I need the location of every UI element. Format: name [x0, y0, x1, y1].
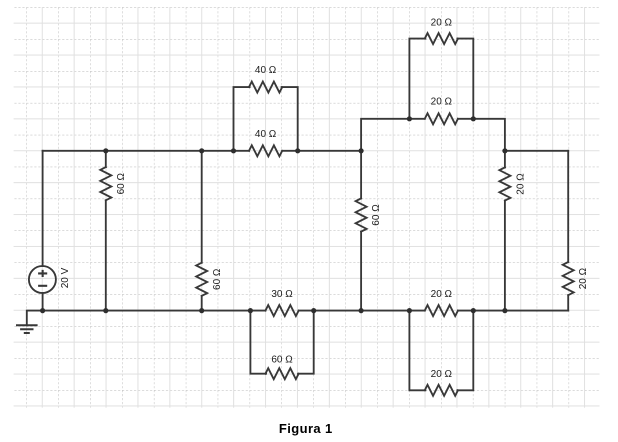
- junction node A / R1 top: [103, 148, 108, 153]
- svg-text:Figura 1: Figura 1: [279, 421, 333, 436]
- wire 20-ohm lower parallel loop (R20d branch): [409, 311, 473, 391]
- svg-text:20 Ω: 20 Ω: [515, 173, 526, 195]
- wire V1 top lead (node A): [42, 151, 44, 266]
- svg-text:40 Ω: 40 Ω: [255, 65, 277, 76]
- V1 minus terminal mark: [38, 285, 47, 287]
- junction node G at V1: [40, 308, 45, 313]
- svg-text:40 Ω: 40 Ω: [255, 129, 277, 140]
- wire 60-ohm lower parallel loop (R60p branch): [250, 311, 313, 374]
- svg-text:20 Ω: 20 Ω: [578, 267, 589, 289]
- svg-text:60 Ω: 60 Ω: [212, 268, 223, 290]
- resistor R60p (60-ohm parallel with R30): [265, 368, 298, 379]
- resistor R20d (20-ohm parallel with R20c): [425, 385, 458, 396]
- resistor R20a (upper of top 20-ohm pair): [425, 33, 458, 44]
- resistor R40b (lower of 40-ohm pair): [234, 145, 298, 156]
- resistor R30 (30-ohm lower branch): [250, 305, 313, 316]
- svg-text:20 Ω: 20 Ω: [431, 289, 453, 300]
- junction R20 bottom pair right node: [471, 308, 476, 313]
- wire 20-ohm top parallel loop (R20a branch): [409, 39, 473, 119]
- wire 40-ohm parallel loop (R40a branch): [234, 87, 298, 151]
- wire node B riser to upper-right net: [361, 119, 409, 151]
- junction R20 top pair right node: [471, 116, 476, 121]
- junction R20 top pair left node: [407, 116, 412, 121]
- junction R1 bottom: [103, 308, 108, 313]
- svg-text:20 Ω: 20 Ω: [431, 369, 453, 380]
- resistor R5 (20-ohm far right): [563, 151, 574, 311]
- svg-text:30 Ω: 30 Ω: [271, 289, 293, 300]
- resistor R40a (upper of 40-ohm pair): [249, 82, 282, 93]
- svg-text:20 V: 20 V: [60, 267, 71, 288]
- wire bottom net: R20c right node to right branch: [473, 310, 568, 312]
- junction R20 bottom pair left node: [407, 308, 412, 313]
- resistor R2 (60-ohm second): [196, 151, 207, 311]
- junction R2 top: [199, 148, 204, 153]
- resistor R3 (60-ohm middle): [356, 151, 367, 311]
- wire top net: R40b right node to node B: [298, 150, 361, 152]
- wire top net: V1 to R40b left node: [43, 150, 234, 152]
- wire bottom net: R30 right node to R20c left node: [314, 310, 410, 312]
- resistor R1 (60-ohm left): [100, 151, 111, 311]
- V1 plus terminal mark: [38, 270, 47, 277]
- junction R40 pair right node: [295, 148, 300, 153]
- junction R30 pair right node: [311, 308, 316, 313]
- wire upper-right net to node C: [473, 119, 505, 151]
- junction R40 pair left node: [231, 148, 236, 153]
- junction node C: [502, 148, 507, 153]
- voltage source V1: [29, 266, 56, 293]
- svg-text:20 Ω: 20 Ω: [431, 18, 453, 29]
- junction R4 bottom: [502, 308, 507, 313]
- ground: [27, 311, 43, 326]
- junction node B: [359, 148, 364, 153]
- junction R30 pair left node: [248, 308, 253, 313]
- resistor R4 (20-ohm at node C): [499, 151, 510, 311]
- resistor R20b (lower of top 20-ohm pair): [409, 113, 473, 124]
- wire bottom net: node G to R30 left node: [43, 310, 251, 312]
- svg-text:60 Ω: 60 Ω: [371, 204, 382, 226]
- svg-text:20 Ω: 20 Ω: [431, 97, 453, 108]
- resistor R20c (lower-right 20-ohm on bottom net): [409, 305, 473, 316]
- wire node C to right branch: [505, 150, 568, 152]
- svg-text:60 Ω: 60 Ω: [271, 355, 293, 366]
- junction R3 bottom: [359, 308, 364, 313]
- svg-text:60 Ω: 60 Ω: [116, 172, 127, 194]
- junction R2 bottom: [199, 308, 204, 313]
- wire V1 bottom lead (node G): [42, 293, 44, 311]
